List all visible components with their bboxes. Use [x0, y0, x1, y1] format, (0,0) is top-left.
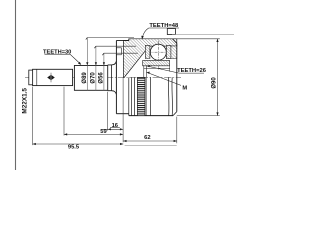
dim 16: [101, 77, 123, 142]
race open-end wall block: [166, 46, 176, 59]
dim 95.5: [33, 87, 177, 151]
rod tip cap: [29, 70, 33, 85]
label TEETH=30 with leader: [43, 49, 81, 65]
svg-text:M: M: [182, 86, 187, 92]
svg-text:59: 59: [100, 129, 107, 135]
bottom external view: bell step lines: [128, 77, 130, 113]
fillet top: [108, 61, 117, 65]
svg-text:95.5: 95.5: [68, 145, 80, 151]
ABS tone ring band (external, striped): [137, 77, 145, 115]
thread symbol: [47, 73, 55, 83]
circlip cross-section: [167, 29, 175, 35]
svg-text:Ø70: Ø70: [90, 72, 96, 84]
spline band edge: [110, 65, 112, 91]
mid cylindrical section: [74, 66, 107, 91]
diameter callout L3 (O56): [102, 53, 138, 90]
svg-text:M22X1.5: M22X1.5: [22, 88, 29, 114]
circlip aux gray line: [172, 34, 234, 36]
svg-text:Ø89: Ø89: [82, 72, 88, 84]
svg-text:Ø56: Ø56: [98, 72, 104, 84]
inner race bore lines TEETH=26: [143, 66, 145, 77]
race right face: [176, 43, 178, 111]
diameter callout L1 (O89): [86, 38, 134, 91]
O90 dimension: [177, 39, 220, 116]
bell top outline: [116, 40, 128, 42]
inner race: [143, 60, 170, 65]
fillet bottom: [108, 91, 117, 95]
svg-text:62: 62: [144, 135, 150, 141]
cage bar right: [166, 45, 171, 58]
race bottom chamfer: [173, 112, 177, 116]
race bottom outline: [129, 115, 173, 117]
label M with leader: [146, 72, 187, 92]
svg-text:TEETH=48: TEETH=48: [149, 23, 179, 29]
boot groove curves: [167, 77, 170, 115]
cage bar left: [145, 45, 150, 58]
bell face: [115, 41, 117, 114]
label TEETH=26 with leader: [146, 65, 206, 74]
svg-text:Ø90: Ø90: [211, 77, 217, 89]
dim 62: [123, 117, 177, 144]
dim 59: [64, 87, 123, 136]
centerline: [25, 76, 181, 78]
svg-text:TEETH=30: TEETH=30: [43, 49, 71, 55]
border frame line: [15, 0, 17, 170]
ball: [150, 44, 166, 60]
bell inner recess notch: [116, 47, 121, 49]
race surface lines: [145, 77, 147, 115]
race top-right chamfer: [172, 39, 176, 44]
diameter callout L2 (O70): [94, 46, 136, 90]
bell bottom outline: [116, 113, 128, 115]
bell housing wall section (hatched wedge + race top band): [123, 39, 176, 78]
label TEETH=48 with leader: [141, 23, 179, 39]
threaded rod M22X1.5: [33, 69, 73, 85]
thread runout line: [36, 69, 38, 85]
